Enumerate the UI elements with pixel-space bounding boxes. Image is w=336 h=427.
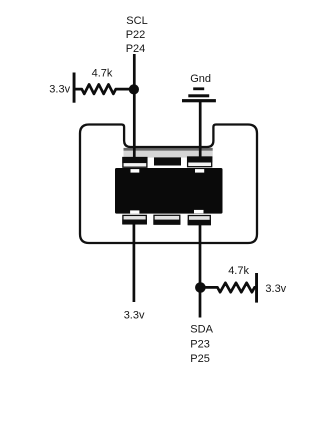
wire SDA (from bottom-right pad down) bbox=[199, 222, 202, 318]
svg-text:3.3v: 3.3v bbox=[49, 83, 70, 95]
wire SCL (vertical from P24 label to IC top-left pad) bbox=[133, 54, 136, 160]
svg-text:SCL: SCL bbox=[126, 15, 147, 27]
pin6 index notch on body (bottom-left) bbox=[130, 210, 139, 213]
pin4 index notch on body (bottom-right) bbox=[194, 210, 204, 213]
svg-text:4.7k: 4.7k bbox=[92, 67, 113, 79]
pad pin6 (bottom-left, 3.3v) bbox=[122, 215, 147, 224]
wire 3.3v (from bottom-left pad down) bbox=[133, 222, 136, 302]
svg-text:P22: P22 bbox=[126, 29, 146, 41]
svg-text:3.3v: 3.3v bbox=[265, 283, 286, 295]
pad pin3 (top-right, Gnd) bbox=[187, 157, 212, 167]
label SCL bbox=[126, 15, 147, 27]
label P23 bbox=[190, 339, 210, 351]
label 3.3v (top left rail) bbox=[49, 83, 70, 95]
pad pin2 (top-middle) bbox=[154, 157, 181, 165]
svg-text:P25: P25 bbox=[190, 353, 210, 365]
svg-text:P24: P24 bbox=[126, 43, 146, 55]
shaded band under notch (dark) bbox=[124, 148, 213, 151]
node junction (SCL / R1) bbox=[129, 84, 139, 94]
node junction (SDA / R2) bbox=[195, 282, 206, 293]
svg-text:Gnd: Gnd bbox=[190, 73, 211, 85]
IC U1 package outline (socket with polarity notch) bbox=[80, 125, 257, 244]
label 4.7k (resistor R2 value) bbox=[228, 265, 249, 277]
label Gnd bbox=[190, 73, 211, 85]
wire Gnd (stem down to IC top-right pad) bbox=[199, 102, 202, 160]
3.3v terminal bar (right) bbox=[255, 273, 258, 303]
IC body (black die) bbox=[115, 168, 223, 214]
3.3v terminal bar (left) bbox=[73, 73, 76, 103]
label P22 bbox=[126, 29, 146, 41]
resistor R1 (4.7k pull-up, SCL) bbox=[76, 84, 130, 94]
label 3.3v (bottom right rail) bbox=[265, 283, 286, 295]
shaded band under notch (light) bbox=[124, 151, 213, 158]
pin1 index notch on body (top-left) bbox=[131, 169, 140, 173]
label 3.3v (bottom left) bbox=[124, 309, 145, 321]
svg-text:SDA: SDA bbox=[190, 323, 213, 335]
label P25 bbox=[190, 353, 210, 365]
pin3 index notch on body (top-right) bbox=[195, 169, 204, 173]
svg-text:P23: P23 bbox=[190, 339, 210, 351]
svg-text:4.7k: 4.7k bbox=[228, 265, 249, 277]
label P24 bbox=[126, 43, 146, 55]
resistor R2 (4.7k pull-up, SDA) bbox=[206, 283, 257, 292]
label SDA bbox=[190, 323, 213, 335]
pad pin5 (bottom-middle) bbox=[153, 215, 180, 224]
label 4.7k (resistor R1 value) bbox=[92, 67, 113, 79]
pad pin1 (top-left, SCL) bbox=[122, 157, 147, 167]
ground symbol (inverted, bars above stem) bbox=[182, 87, 216, 102]
pad pin4 (bottom-right, SDA) bbox=[188, 216, 211, 226]
svg-text:3.3v: 3.3v bbox=[124, 309, 145, 321]
